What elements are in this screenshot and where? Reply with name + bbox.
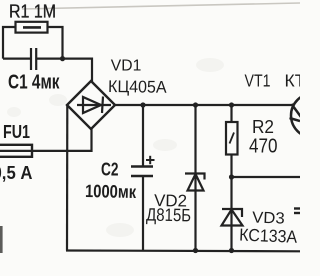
junction bottom rail VD3 node xyxy=(229,248,234,253)
wire R2 lower lead xyxy=(230,155,232,251)
svg-text:КС133А: КС133А xyxy=(239,225,298,247)
resistor R1 xyxy=(16,22,48,33)
wire C2 upper lead xyxy=(142,105,144,166)
zener diode VD3 xyxy=(222,209,243,226)
wire bottom rail xyxy=(66,249,300,252)
junction C1/R1 right node xyxy=(60,56,65,61)
wire C2 lower lead xyxy=(142,176,144,251)
svg-text:КТ: КТ xyxy=(285,71,301,91)
wire R1 left lead xyxy=(3,27,16,59)
wire C1 right lead to bridge top xyxy=(37,59,92,82)
junction R2/VD3 base node xyxy=(229,174,234,179)
capacitor C1 xyxy=(31,48,36,70)
junction top rail C2 node xyxy=(140,102,145,107)
svg-text:КЦ405А: КЦ405А xyxy=(108,77,167,97)
scan artifact top line xyxy=(22,3,300,9)
svg-text:R2: R2 xyxy=(252,117,274,137)
svg-text:R1 1M: R1 1M xyxy=(9,2,56,22)
svg-text:1000мк: 1000мк xyxy=(85,181,137,202)
wire C1 left lead xyxy=(3,57,30,59)
svg-text:470: 470 xyxy=(249,136,278,158)
svg-text:C2: C2 xyxy=(101,160,119,180)
wire R2 upper lead xyxy=(230,105,232,122)
wire fuse through and to bridge bottom xyxy=(0,129,92,151)
wire base node to transistor xyxy=(232,176,301,178)
scan smudges xyxy=(7,58,224,237)
junction bottom rail VD2 node xyxy=(193,248,198,253)
scan artifact left dark bar xyxy=(0,226,3,253)
svg-text:C1 4мк: C1 4мк xyxy=(8,72,60,94)
svg-text:0,5 А: 0,5 А xyxy=(0,163,33,183)
transistor VT1 xyxy=(290,94,320,138)
zener diode VD2 xyxy=(185,174,205,191)
svg-text:VD1: VD1 xyxy=(111,58,142,75)
bridge rectifier VD1 diamond xyxy=(67,81,115,129)
resistor R2 xyxy=(226,122,238,155)
fuse FU1 xyxy=(0,145,32,157)
bridge inner diode xyxy=(77,97,111,114)
capacitor plate marks right edge xyxy=(294,209,300,214)
wire R1 right lead xyxy=(48,27,63,59)
svg-text:Д815Б: Д815Б xyxy=(146,205,191,226)
wire bridge left corner down to bottom rail xyxy=(66,105,69,251)
svg-text:VT1: VT1 xyxy=(245,71,271,91)
svg-text:FU1: FU1 xyxy=(3,122,30,142)
wire VD2 upper lead xyxy=(194,105,196,251)
junction top rail R2 node xyxy=(229,102,234,107)
capacitor C2 xyxy=(131,167,153,177)
junction top rail VD2 node xyxy=(193,102,198,107)
wire top rail xyxy=(115,104,294,106)
capacitor C2 polarity plus xyxy=(146,156,155,164)
